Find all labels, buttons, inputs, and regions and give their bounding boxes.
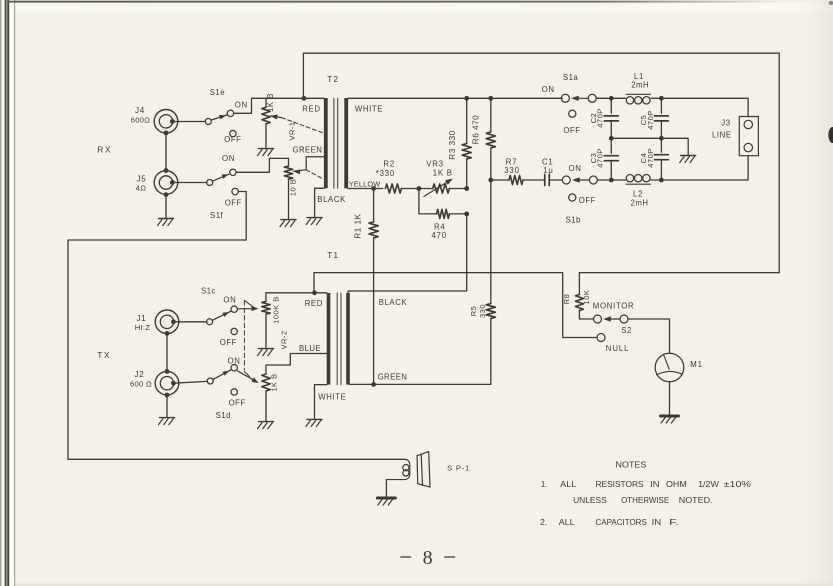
switch S1f OFF contact (232, 188, 238, 194)
wire null rail A across middle (314, 273, 597, 338)
svg-text:600Ω: 600Ω (131, 116, 151, 125)
wire 1K B pot top to T1 BLUE (266, 354, 327, 375)
node L1 right (659, 96, 664, 101)
resistor R4 470 (419, 189, 437, 214)
jack J3 LINE (739, 117, 758, 156)
svg-text:IN: IN (652, 517, 662, 527)
resistor R7 330 (491, 179, 509, 181)
capacitor C2 470P (610, 98, 612, 113)
wire T1 GREEN rail (350, 383, 374, 385)
svg-text:470P: 470P (646, 110, 655, 130)
ground J5 (158, 219, 174, 226)
svg-text:1K B: 1K B (269, 373, 278, 391)
potentiometer VR3 1K B (419, 188, 433, 190)
wire T2 BLACK to ground (315, 188, 324, 217)
switch S1a OFF contact (569, 110, 576, 117)
switch S1d OFF contact (231, 389, 237, 395)
capacitor C1 1u (523, 179, 545, 181)
svg-text:OHM: OHM (666, 479, 687, 489)
svg-text:RESISTORS: RESISTORS (596, 479, 645, 489)
ground T1 WHITE (306, 419, 322, 426)
svg-text:ON: ON (569, 164, 582, 173)
svg-text:ON: ON (222, 154, 235, 163)
svg-text:470: 470 (432, 231, 447, 240)
node C2/C3 mid (609, 136, 614, 141)
wire J4 to S1e (172, 121, 205, 123)
jack J1 HI-Z (155, 310, 179, 334)
scanner mark right edge (828, 127, 833, 143)
svg-text:ON: ON (235, 101, 248, 110)
svg-text:R3 330: R3 330 (448, 130, 457, 159)
potentiometer VR-1 lower 10 B (288, 158, 290, 166)
potentiometer VR-2 100K B (265, 293, 267, 302)
svg-text:OFF: OFF (229, 398, 246, 407)
ground VR-1 1K pot (258, 149, 274, 156)
wire J4-J5 link (165, 133, 167, 171)
svg-text:S1c: S1c (201, 287, 216, 296)
wire top rail from T2 RED to right border (303, 53, 779, 272)
page number 8 (401, 556, 411, 558)
svg-text:MONITOR: MONITOR (593, 301, 635, 310)
node R6 top (488, 96, 493, 101)
node C5/C4 mid (659, 136, 664, 141)
svg-text:470P: 470P (596, 148, 605, 168)
switch S1c OFF contact (231, 328, 237, 334)
jack J4 600ohm (154, 110, 178, 134)
svg-text:LINE: LINE (712, 130, 732, 139)
svg-text:BLUE: BLUE (299, 344, 321, 353)
svg-text:RX: RX (97, 145, 112, 155)
node R4 right junction (464, 212, 469, 217)
svg-text:TX: TX (97, 350, 111, 360)
svg-text:T2: T2 (327, 75, 339, 84)
svg-text:J1: J1 (136, 314, 146, 323)
svg-text:ON: ON (542, 85, 555, 94)
svg-text:ON: ON (223, 296, 236, 305)
node T1 RED (312, 290, 317, 295)
resistor R6 470 (490, 98, 492, 132)
resistor R1 1K (373, 189, 375, 222)
node L2 left (609, 178, 614, 183)
wire J1-J2 link (166, 333, 168, 371)
svg-text:S P-1: S P-1 (447, 464, 470, 473)
speaker SP-1 (386, 459, 409, 479)
ground meter (661, 416, 679, 423)
node R3 top (464, 96, 469, 101)
wire S2 to meter (628, 319, 670, 353)
svg-text:NOTES: NOTES (616, 459, 647, 469)
wire meter to ground (669, 382, 671, 416)
svg-text:R5: R5 (469, 306, 478, 317)
svg-text:WHITE: WHITE (355, 105, 383, 114)
VR-1 gang dashed link lower (306, 170, 323, 179)
wire T1 WHITE to ground (315, 385, 327, 419)
svg-text:S1e: S1e (210, 88, 225, 97)
svg-text:OFF: OFF (225, 198, 242, 207)
node YELLOW/R1 junction (371, 186, 376, 191)
ground VR-1 10B pot (280, 220, 296, 227)
svg-text:BLACK: BLACK (317, 195, 346, 204)
capacitor C4 470P (660, 138, 662, 152)
potentiometer 1K B (TX) (262, 374, 270, 391)
svg-text:OFF: OFF (220, 338, 237, 347)
svg-text:L2: L2 (633, 190, 643, 199)
node R6/R7 junction (488, 178, 493, 183)
wire bottom rail to J3 (661, 156, 748, 180)
svg-text:NOTED.: NOTED. (679, 495, 713, 505)
svg-text:VR-1: VR-1 (288, 121, 297, 140)
svg-text:10K: 10K (582, 290, 591, 305)
svg-text:YELLOW: YELLOW (349, 179, 381, 188)
svg-text:IN: IN (650, 479, 660, 489)
svg-text:C1: C1 (542, 158, 554, 167)
svg-text:R8: R8 (562, 294, 571, 305)
wire T2 WHITE rail (348, 97, 562, 99)
svg-text:S1d: S1d (216, 411, 231, 420)
svg-text:2mH: 2mH (631, 198, 649, 207)
switch S1b OFF contact (569, 194, 576, 201)
switch S1d (207, 378, 213, 384)
ground J2 (159, 418, 175, 425)
svg-text:T1: T1 (327, 251, 339, 260)
svg-text:*330: *330 (376, 169, 395, 178)
wire R6 junction down through R5 (490, 180, 492, 304)
inductor L2 2mH (611, 179, 625, 181)
wire J2 to ground (166, 395, 168, 417)
capacitor C5 470P (660, 98, 662, 113)
svg-text:HI:Z: HI:Z (135, 323, 151, 332)
VR-2 wiper arrow from S1c (237, 308, 256, 310)
VR-2 gang dashed link (243, 301, 245, 370)
svg-text:±10%: ±10% (724, 479, 752, 489)
svg-text:S1f: S1f (210, 211, 224, 220)
svg-text:VR-2: VR-2 (280, 330, 289, 349)
VR-1 gang dashed link upper (282, 118, 323, 133)
node T2 RED (302, 96, 307, 101)
node L2 right (659, 178, 664, 183)
wiper arrow S1d to 1K B pot (237, 371, 256, 382)
svg-text:J5: J5 (136, 174, 146, 183)
potentiometer VR-1 upper 1K B (265, 98, 267, 107)
wire mid filter to ground (611, 138, 688, 155)
svg-text:1/2W: 1/2W (698, 479, 719, 489)
svg-text:1K B: 1K B (266, 93, 275, 112)
svg-text:2.: 2. (540, 517, 547, 527)
svg-text:OTHERWISE: OTHERWISE (621, 495, 669, 505)
wire S1f ON to VR-1 10B pot (236, 158, 288, 172)
svg-text:WHITE: WHITE (318, 393, 346, 402)
svg-text:ON: ON (228, 357, 241, 366)
jack J2 600ohm (155, 371, 179, 395)
resistor R5 330 (486, 304, 495, 319)
page left edge / book spine (0, 0, 2, 586)
svg-text:UNLESS: UNLESS (573, 495, 607, 505)
ground T2 BLACK (306, 218, 322, 225)
wire J1 to S1c (173, 321, 206, 323)
svg-text:470P: 470P (596, 108, 605, 128)
wire S1e to VR-1 1K pot / T2 RED (234, 98, 324, 113)
svg-text:S2: S2 (621, 326, 632, 335)
node T1 GREEN / R1 (371, 382, 376, 387)
svg-text:8: 8 (423, 547, 433, 569)
ground VR-2 (258, 349, 274, 356)
VR-1 wiper arrow (271, 116, 282, 118)
svg-text:R1 1K: R1 1K (354, 213, 363, 238)
svg-text:ALL: ALL (560, 479, 576, 489)
svg-text:1.: 1. (541, 479, 547, 489)
capacitor C3 470P (610, 138, 612, 153)
svg-text:R4: R4 (434, 222, 446, 231)
wire top rail to J3 (661, 98, 748, 116)
ground 1K B pot (258, 422, 274, 429)
svg-text:OFF: OFF (563, 126, 580, 135)
wire J5 to ground (165, 195, 167, 218)
switch S1f (207, 180, 213, 186)
svg-text:S1a: S1a (563, 73, 579, 82)
page top edge line (8, 1, 788, 3)
svg-text:CAPACITORS: CAPACITORS (596, 517, 648, 527)
svg-text:J4: J4 (135, 106, 145, 115)
svg-text:S1b: S1b (566, 216, 582, 225)
svg-text:330: 330 (504, 166, 519, 175)
svg-text:330: 330 (478, 304, 487, 318)
meter M1 (655, 353, 684, 382)
svg-text:OFF: OFF (579, 196, 596, 205)
svg-text:R2: R2 (383, 160, 395, 169)
wire monitor rail B right (579, 272, 779, 274)
wire VR3/R4 junction down to T1 BLACK (348, 214, 467, 293)
svg-text:M1: M1 (690, 360, 702, 369)
switch S1b (562, 176, 570, 184)
jack J5 4ohm (154, 171, 178, 195)
node L1 left (609, 96, 614, 101)
inductor L1 2mH (611, 97, 625, 99)
svg-text:RED: RED (302, 105, 320, 114)
svg-text:ALL: ALL (559, 517, 575, 527)
svg-text:GREEN: GREEN (293, 146, 323, 155)
resistor R2 *330 (385, 184, 401, 193)
svg-text:4Ω: 4Ω (136, 183, 147, 192)
switch S2 NULL contact (597, 334, 605, 342)
svg-text:R6 470: R6 470 (471, 115, 480, 144)
svg-text:RED: RED (305, 299, 323, 308)
ground speaker (377, 498, 395, 505)
svg-text:J2: J2 (134, 370, 144, 379)
svg-text:1μ: 1μ (543, 166, 553, 175)
svg-text:NULL: NULL (606, 344, 630, 353)
svg-text:BLACK: BLACK (379, 298, 408, 307)
svg-text:600 Ω: 600 Ω (130, 380, 152, 389)
svg-text:2mH: 2mH (631, 81, 649, 90)
wire speaker to ground (385, 480, 387, 497)
wire VR-2 top to T1 RED (266, 292, 327, 294)
node VR3/R4 left junction (417, 186, 422, 191)
VR-1 10B wiper arrow from T2 GREEN (306, 157, 324, 170)
svg-text:GREEN: GREEN (378, 373, 408, 382)
svg-text:OFF: OFF (224, 135, 241, 144)
svg-text:10 B: 10 B (289, 179, 298, 196)
node VR3 right junction (464, 186, 469, 191)
svg-text:F.: F. (669, 517, 679, 527)
svg-text:470P: 470P (646, 148, 655, 168)
switch S1e OFF contact (230, 130, 236, 136)
svg-text:1K B: 1K B (433, 169, 453, 178)
wire T2 YELLOW rail (348, 188, 383, 190)
wire R1 down to T1 GREEN (373, 238, 375, 384)
svg-text:VR3: VR3 (426, 160, 444, 169)
svg-text:J3: J3 (721, 119, 730, 128)
svg-text:R7: R7 (506, 158, 518, 167)
wire R5 to T1 GREEN (374, 319, 491, 385)
resistor R3 330 (466, 98, 468, 143)
wire S1f OFF to speaker line (68, 192, 405, 460)
svg-text:100K B: 100K B (271, 296, 280, 324)
ground filter mid (680, 156, 696, 163)
resistor R8 10K (578, 273, 580, 295)
